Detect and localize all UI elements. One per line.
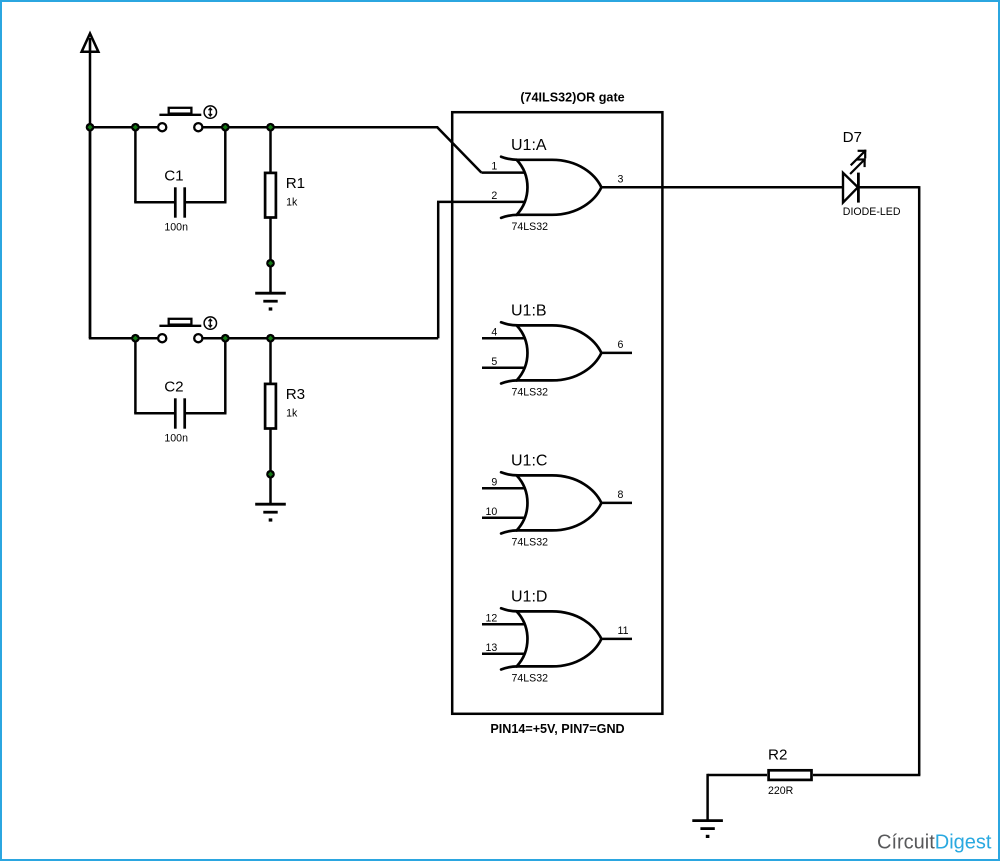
svg-text:C1: C1 — [164, 168, 183, 185]
wire rail1 right segment — [202, 126, 438, 129]
svg-text:9: 9 — [491, 476, 497, 488]
wire riser rail2 to pin2 — [437, 202, 482, 338]
label PIN14=+5V, PIN7=GND — [490, 722, 624, 736]
svg-text:11: 11 — [618, 625, 629, 637]
svg-text:13: 13 — [486, 642, 498, 654]
or-gate U1:B — [482, 303, 624, 399]
wire LED cathode to corner — [858, 186, 919, 189]
junction node rail1 C1 right — [221, 123, 230, 132]
LED D7 — [843, 129, 901, 218]
svg-text:74LS32: 74LS32 — [512, 672, 549, 684]
svg-text:R2: R2 — [768, 747, 787, 764]
or-gate U1:A — [491, 137, 623, 233]
wire right vertical down — [918, 186, 921, 775]
push button SW2 — [158, 317, 216, 342]
wire rail2 left segment — [89, 337, 158, 340]
svg-text:CírcuitDigest: CírcuitDigest — [877, 832, 992, 854]
ground below R2 — [692, 821, 723, 838]
capacitor C2 — [134, 338, 226, 444]
svg-text:100n: 100n — [164, 222, 188, 234]
junction node below R3 — [266, 470, 275, 479]
or-gate U1:D — [482, 589, 629, 685]
junction node rail2 R3 — [266, 334, 275, 343]
svg-text:8: 8 — [618, 489, 624, 501]
junction node rail2 C2 left — [131, 334, 140, 343]
IC box U1 (74LS32) — [452, 112, 662, 714]
wire R2 right segment — [813, 774, 920, 777]
svg-text:3: 3 — [618, 173, 624, 185]
wire pin2 stub gate A — [482, 201, 524, 204]
svg-text:74LS32: 74LS32 — [512, 221, 549, 233]
wire R2 corner down — [706, 774, 709, 821]
svg-text:DIODE-LED: DIODE-LED — [843, 206, 901, 218]
junction node rail1 at power line — [86, 123, 95, 132]
wire R2 left segment — [708, 774, 767, 777]
svg-text:R1: R1 — [286, 175, 305, 192]
wire rail1 left segment — [90, 126, 158, 129]
wire diagonal rail1 to pin1 — [437, 127, 481, 172]
ground below R3 — [255, 504, 286, 521]
resistor R1 — [265, 127, 305, 293]
ground below R1 — [255, 293, 286, 310]
junction node rail1 C1 left — [131, 123, 140, 132]
capacitor C1 — [134, 127, 226, 233]
wire rail2 right segment — [202, 337, 438, 340]
wire gate A output to LED anode — [601, 186, 842, 189]
CircuitDigest logo — [877, 832, 992, 854]
power +5V arrow — [82, 34, 99, 339]
svg-text:R3: R3 — [286, 386, 305, 403]
svg-text:4: 4 — [491, 326, 497, 338]
resistor R2 — [768, 747, 812, 797]
junction node below R1 — [266, 259, 275, 268]
svg-text:6: 6 — [618, 339, 624, 351]
wire pin1 stub gate A — [481, 171, 524, 174]
svg-text:2: 2 — [491, 190, 497, 202]
svg-text:100n: 100n — [164, 433, 188, 445]
svg-text:U1:B: U1:B — [511, 303, 547, 320]
svg-text:1: 1 — [491, 161, 497, 173]
wire output 6 stub — [601, 352, 632, 355]
svg-text:220R: 220R — [768, 785, 794, 797]
svg-text:(74ILS32)OR gate: (74ILS32)OR gate — [520, 91, 624, 105]
push button SW1 — [158, 106, 216, 131]
svg-text:U1:D: U1:D — [511, 589, 547, 606]
svg-text:12: 12 — [486, 612, 498, 624]
svg-text:D7: D7 — [843, 129, 862, 146]
svg-text:74LS32: 74LS32 — [512, 536, 549, 548]
wire left vertical drop to rail2 — [89, 127, 92, 338]
svg-text:U1:A: U1:A — [511, 137, 547, 154]
label (74ILS32)OR gate title — [520, 91, 624, 105]
svg-text:1k: 1k — [286, 197, 298, 209]
svg-text:1k: 1k — [286, 408, 298, 420]
svg-text:5: 5 — [491, 356, 497, 368]
svg-text:10: 10 — [486, 506, 498, 518]
junction node rail1 R1 — [266, 123, 275, 132]
or-gate U1:C — [482, 453, 624, 549]
resistor R3 — [265, 338, 305, 504]
junction node rail2 C2 right — [221, 334, 230, 343]
svg-text:U1:C: U1:C — [511, 453, 547, 470]
svg-text:C2: C2 — [164, 379, 183, 396]
wire output 8 stub — [601, 502, 632, 505]
svg-text:74LS32: 74LS32 — [512, 386, 549, 398]
svg-text:PIN14=+5V, PIN7=GND: PIN14=+5V, PIN7=GND — [490, 722, 624, 736]
wire output 11 stub — [601, 638, 632, 641]
